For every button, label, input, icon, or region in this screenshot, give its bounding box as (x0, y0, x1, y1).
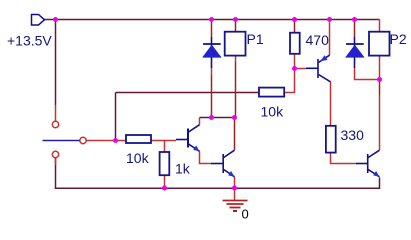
svg-text:470: 470 (306, 32, 330, 48)
svg-text:1k: 1k (175, 161, 191, 177)
svg-text:330: 330 (341, 127, 365, 143)
svg-text:+13.5V: +13.5V (7, 33, 52, 49)
svg-text:P2: P2 (390, 31, 407, 47)
svg-text:P1: P1 (247, 31, 264, 47)
svg-text:10k: 10k (126, 150, 150, 166)
svg-text:10k: 10k (261, 104, 285, 120)
svg-text:0: 0 (242, 207, 249, 222)
